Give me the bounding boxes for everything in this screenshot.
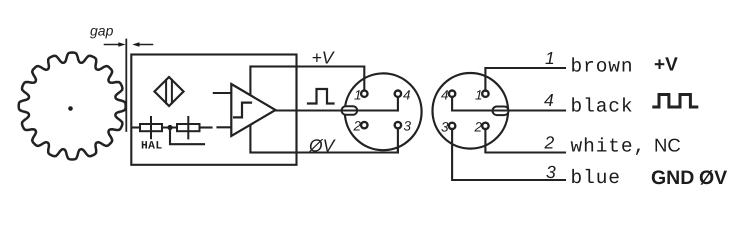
J2 wire pin3 to row4: [452, 131, 565, 180]
wire feedback L-shape: [170, 129, 204, 144]
gear (toothed target wheel): [19, 53, 126, 160]
svg-text:GND: GND: [651, 167, 694, 189]
wire +V: [297, 67, 365, 91]
pulse symbol bold in list: [654, 95, 697, 108]
J1 pin 3: [395, 122, 401, 128]
gap dimension arrow left: [105, 42, 126, 47]
svg-text:gap: gap: [90, 23, 114, 39]
svg-text:2: 2: [544, 132, 555, 152]
connector J1 shell: [345, 73, 422, 150]
comparator input stub lower: [218, 126, 232, 128]
svg-text:+V: +V: [654, 55, 678, 76]
connector J2 shell: [433, 73, 509, 149]
wire into filter L1: [132, 126, 140, 128]
svg-text:3: 3: [404, 119, 412, 134]
svg-text:blue: blue: [571, 167, 621, 189]
J2 key slot: [493, 107, 509, 116]
svg-text:3: 3: [546, 162, 556, 182]
output stage box: [250, 67, 296, 153]
schmitt hysteresis symbol: [234, 103, 251, 118]
svg-text:ØV: ØV: [308, 136, 337, 156]
J1 key slot: [342, 106, 358, 115]
J2 pin 4: [449, 91, 455, 97]
J2 wire pin4 to row2: [452, 99, 565, 111]
filter L1: [140, 117, 162, 138]
svg-text:3: 3: [441, 119, 449, 134]
J1 pin 4: [395, 91, 401, 97]
J2 pin 1: [482, 91, 488, 97]
svg-text:4: 4: [544, 90, 554, 110]
J1 pin 2: [361, 122, 367, 128]
wire signal inside J1: [342, 99, 398, 111]
gear OD extension line: [125, 40, 127, 132]
wire L1 to junction: [162, 126, 177, 128]
sensor housing box: [131, 55, 296, 165]
svg-text:1: 1: [545, 48, 555, 68]
filter L2: [177, 117, 200, 138]
J2 wire pin1 to row1: [485, 68, 565, 91]
J2 wire pin2 to row3: [485, 131, 565, 153]
svg-text:2: 2: [474, 119, 483, 134]
Hall sensor symbol U1 (diamond): [155, 77, 184, 106]
svg-text:white,: white,: [571, 136, 647, 158]
svg-text:ØV: ØV: [699, 167, 727, 189]
svg-text:HAL: HAL: [141, 141, 163, 153]
svg-text:4: 4: [441, 87, 449, 102]
comparator input stub upper: [214, 92, 232, 94]
svg-text:1: 1: [475, 87, 483, 102]
svg-text:+V: +V: [312, 48, 336, 68]
gear center dot: [68, 106, 73, 111]
wire signal out: [276, 109, 360, 111]
svg-text:brown: brown: [571, 56, 634, 78]
J1 pin 1: [361, 91, 367, 97]
svg-text:NC: NC: [654, 135, 681, 156]
wire 0V: [297, 130, 398, 152]
J2 pin 3: [449, 123, 455, 129]
junction node: [167, 125, 172, 130]
svg-text:4: 4: [403, 87, 411, 102]
svg-text:1: 1: [354, 87, 362, 102]
svg-text:2: 2: [353, 119, 362, 134]
gap dimension arrow right: [132, 42, 152, 47]
comparator U2 (schmitt trigger triangle): [231, 84, 275, 136]
pulse symbol at sensor output: [308, 89, 334, 104]
wire L2 output lead: [200, 126, 212, 128]
svg-text:black: black: [571, 95, 634, 117]
J2 pin 2: [482, 123, 488, 129]
